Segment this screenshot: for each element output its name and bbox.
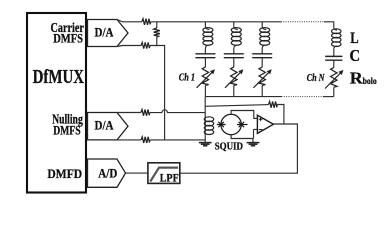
node comb top dotted xyxy=(281,21,324,23)
label Carrier DMFS xyxy=(51,20,84,46)
svg-text:bolo: bolo xyxy=(363,77,377,87)
svg-text:Ch 1: Ch 1 xyxy=(179,73,195,84)
josephson junction right xyxy=(237,122,248,127)
variable resistor R bolo channel N xyxy=(325,68,344,97)
resistor carrier top bias xyxy=(142,19,151,25)
wire carrier bottom xyxy=(117,46,141,47)
wire summing node vertical xyxy=(204,97,206,143)
wire SQUID bottom to ground xyxy=(231,129,257,142)
wire carrier return xyxy=(150,46,165,140)
ground under input coil xyxy=(199,143,212,146)
label R bolo xyxy=(350,68,377,87)
inductor SQUID input coil xyxy=(204,117,213,135)
capacitor branch2 xyxy=(224,54,244,67)
wire carrier top xyxy=(117,20,142,22)
wire feedback to output xyxy=(277,105,284,125)
A/D converter U5 xyxy=(88,159,126,187)
resistor nulling top bias xyxy=(141,110,150,116)
svg-text:L: L xyxy=(350,30,358,47)
wire ADC to LPF xyxy=(126,172,148,174)
variable resistor bolometer branch1 xyxy=(197,67,215,97)
DfMUX board box xyxy=(27,13,86,193)
svg-text:C: C xyxy=(350,46,361,65)
D/A converter U1 (carrier DAC) xyxy=(88,20,129,47)
D/A converter U2 (nulling DAC) xyxy=(88,113,129,140)
svg-text:DMFD: DMFD xyxy=(47,166,82,181)
wire feedback from summing node xyxy=(205,105,268,107)
resistor vertical bridge xyxy=(154,22,160,46)
wire carrier top bus xyxy=(151,21,281,23)
wire comb bottom bus xyxy=(205,96,281,98)
wire nulling top with hop xyxy=(117,112,141,114)
resistor nulling bottom bias xyxy=(141,137,150,143)
svg-text:SQUID: SQUID xyxy=(215,142,243,153)
svg-text:Ch N: Ch N xyxy=(307,73,325,84)
svg-text:D/A: D/A xyxy=(95,25,115,40)
wire SQUID top to op-amp plus xyxy=(231,111,257,119)
inductor branch1 xyxy=(203,22,213,54)
capacitor branch3 xyxy=(252,54,272,67)
low-pass filter LPF xyxy=(148,163,180,185)
variable resistor bolometer branch3 xyxy=(253,67,271,97)
op-amp U4 xyxy=(257,115,273,133)
SQUID U3 xyxy=(217,114,248,134)
wire nulling top to summing node xyxy=(150,110,206,113)
svg-text:LPF: LPF xyxy=(160,173,179,185)
capacitor C channel N xyxy=(325,56,342,67)
wire op-amp output xyxy=(180,124,298,173)
svg-text:DfMUX: DfMUX xyxy=(33,66,85,88)
inductor L channel N xyxy=(332,29,341,57)
svg-text:DMFS: DMFS xyxy=(53,124,81,138)
svg-text:DMFS: DMFS xyxy=(53,31,83,45)
wire nulling bottom to ground node xyxy=(150,139,205,141)
resistor feedback xyxy=(269,102,278,108)
ground at op-amp minus xyxy=(247,143,260,146)
inductor branch3 xyxy=(260,22,270,54)
svg-text:D/A: D/A xyxy=(95,118,115,133)
svg-text:A/D: A/D xyxy=(98,166,117,181)
variable resistor bolometer branch2 xyxy=(225,67,243,97)
wire comb top right xyxy=(324,22,337,30)
node comb bottom dotted xyxy=(282,96,324,98)
resistor carrier bottom bias xyxy=(141,42,150,48)
wire comb bottom right xyxy=(323,96,334,98)
inductor branch2 xyxy=(231,22,241,54)
capacitor branch1 xyxy=(195,54,215,67)
label Nulling DMFS xyxy=(52,112,83,138)
josephson junction left xyxy=(217,122,226,127)
wire nulling bottom xyxy=(117,139,141,141)
